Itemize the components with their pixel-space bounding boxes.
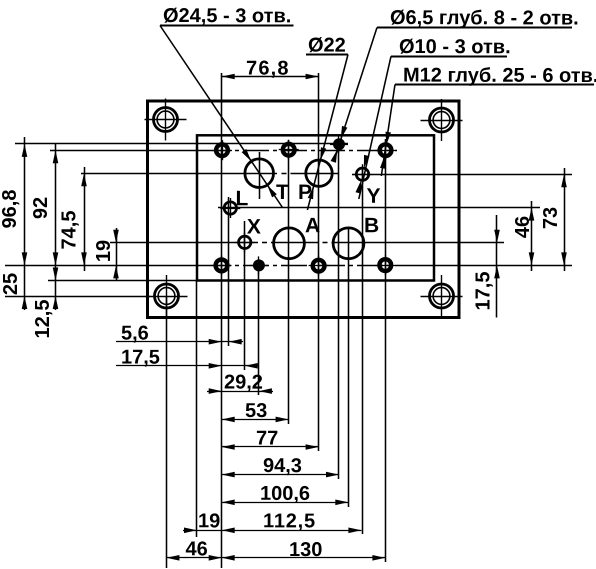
svg-text:46: 46 [512,216,534,238]
svg-text:P: P [298,181,312,204]
svg-text:130: 130 [289,539,322,561]
svg-text:A: A [305,214,320,237]
svg-text:17,5: 17,5 [473,272,495,311]
svg-text:112,5: 112,5 [263,510,316,532]
svg-text:74,5: 74,5 [59,211,81,250]
svg-text:100,6: 100,6 [260,483,310,505]
svg-text:Ø24,5 - 3 отв.: Ø24,5 - 3 отв. [163,5,291,27]
svg-text:96,8: 96,8 [0,190,21,229]
svg-text:77: 77 [256,428,278,450]
svg-text:46: 46 [185,538,207,560]
svg-text:25: 25 [0,273,22,295]
svg-text:L: L [235,187,248,210]
svg-text:12,5: 12,5 [32,300,54,339]
svg-text:19: 19 [198,510,220,532]
svg-text:B: B [364,214,379,237]
svg-text:94,3: 94,3 [263,455,302,477]
svg-text:19: 19 [93,240,115,262]
svg-text:Ø10 - 3 отв.: Ø10 - 3 отв. [399,36,511,58]
svg-text:Y: Y [366,185,380,208]
svg-text:X: X [247,216,261,239]
svg-text:Ø22: Ø22 [308,35,346,57]
svg-text:29,2: 29,2 [224,372,263,394]
svg-text:М12 глуб. 25 - 6 отв.: М12 глуб. 25 - 6 отв. [403,65,596,88]
svg-text:53: 53 [245,400,267,422]
svg-text:76,8: 76,8 [246,58,290,80]
svg-text:T: T [276,181,289,204]
svg-text:73: 73 [540,207,562,229]
svg-text:5,6: 5,6 [121,323,149,345]
svg-text:92: 92 [30,197,52,219]
svg-text:Ø6,5 глуб. 8 - 2 отв.: Ø6,5 глуб. 8 - 2 отв. [390,7,579,29]
svg-text:17,5: 17,5 [121,347,160,369]
